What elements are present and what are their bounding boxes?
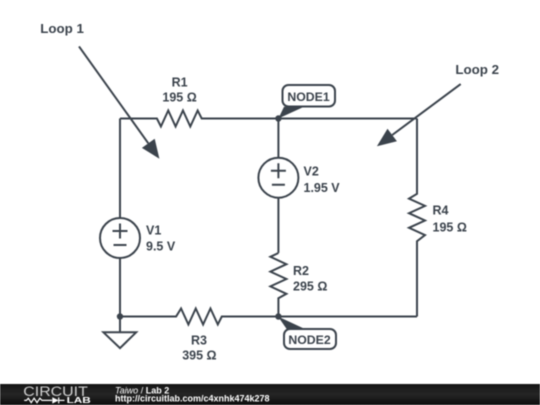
svg-text:9.5 V: 9.5 V — [146, 240, 176, 254]
svg-text:NODE1: NODE1 — [287, 90, 330, 104]
svg-text:V2: V2 — [304, 164, 319, 178]
svg-text:1.95 V: 1.95 V — [304, 181, 341, 195]
svg-text:R3: R3 — [191, 334, 207, 348]
svg-text:195 Ω: 195 Ω — [162, 90, 196, 104]
svg-text:395 Ω: 395 Ω — [182, 349, 216, 363]
svg-text:R2: R2 — [293, 264, 309, 278]
svg-text:Loop 2: Loop 2 — [455, 62, 499, 77]
svg-text:R1: R1 — [172, 76, 188, 90]
svg-text:295 Ω: 295 Ω — [293, 279, 327, 293]
svg-text:Loop 1: Loop 1 — [40, 21, 84, 36]
svg-text:195 Ω: 195 Ω — [433, 221, 467, 235]
svg-text:V1: V1 — [146, 224, 161, 238]
svg-text:NODE2: NODE2 — [288, 333, 331, 347]
svg-text:R4: R4 — [433, 204, 449, 218]
